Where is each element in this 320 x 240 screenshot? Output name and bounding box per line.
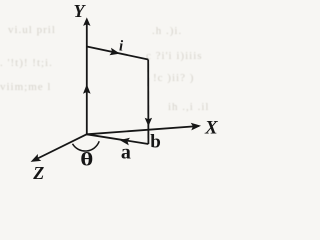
svg-text:X: X bbox=[204, 118, 219, 139]
svg-text:viim;me l: viim;me l bbox=[0, 81, 51, 93]
arrow a on bottom wire (left toward origin) bbox=[119, 136, 130, 145]
angle theta arc bbox=[73, 141, 100, 151]
svg-text:ih .,i .il: ih .,i .il bbox=[168, 101, 209, 113]
svg-text:Z: Z bbox=[32, 163, 44, 183]
current arrow i on top wire (right) bbox=[109, 48, 120, 58]
current arrow on right wire (down) bbox=[145, 118, 152, 127]
svg-text:θ: θ bbox=[80, 148, 93, 169]
Z axis arrowhead bbox=[29, 154, 41, 165]
svg-text:!c )ii? ): !c )ii? ) bbox=[153, 72, 194, 84]
current arrow on left wire (up) bbox=[83, 84, 91, 94]
Y axis arrowhead bbox=[83, 17, 90, 26]
svg-text:. '!t)! !t;i.: . '!t)! !t;i. bbox=[0, 57, 53, 69]
bottom wire of loop (side a) bbox=[87, 134, 149, 144]
X axis arrowhead bbox=[191, 122, 202, 130]
svg-text:b: b bbox=[150, 131, 161, 152]
X axis bbox=[87, 126, 199, 134]
top wire of loop bbox=[87, 47, 148, 60]
svg-text:.h .)i.: .h .)i. bbox=[152, 25, 182, 37]
svg-text:vi.ul pril: vi.ul pril bbox=[8, 24, 56, 36]
svg-text:a: a bbox=[121, 142, 131, 164]
Y axis bbox=[86, 20, 88, 134]
svg-text:c ?i'i i)iiis: c ?i'i i)iiis bbox=[146, 50, 203, 62]
Z axis bbox=[34, 134, 87, 160]
right wire of loop (side b) bbox=[147, 60, 149, 145]
